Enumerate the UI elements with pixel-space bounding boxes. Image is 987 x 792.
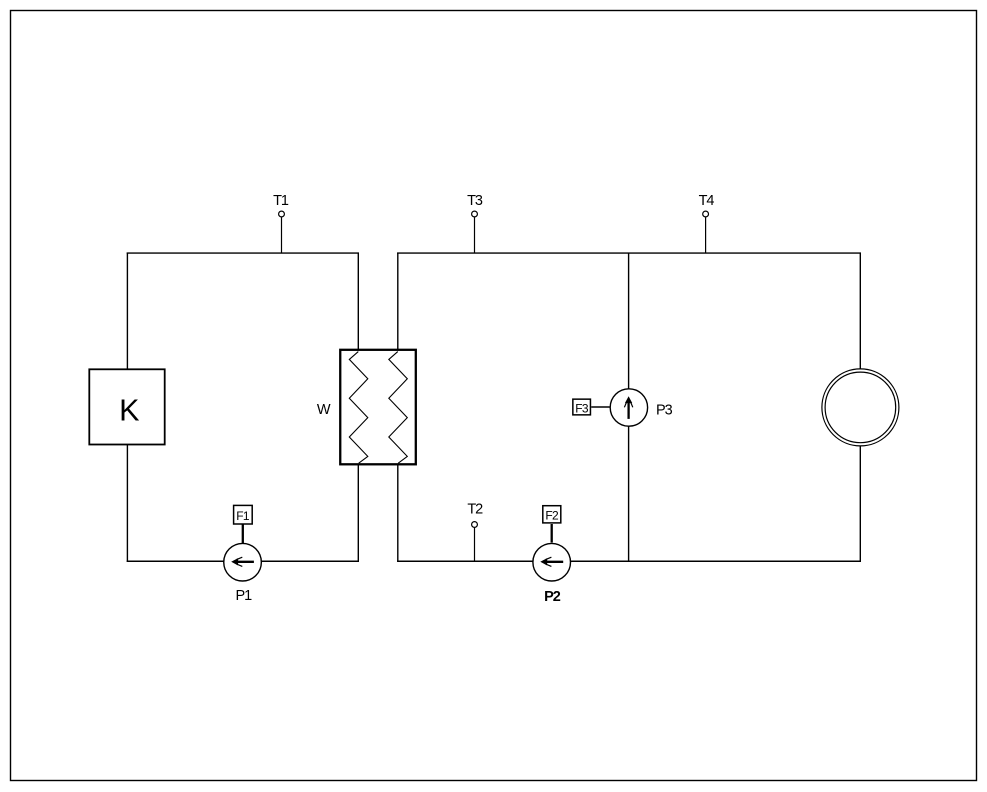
- svg-text:K: K: [119, 394, 139, 428]
- wire: right loop bottom horizontal: [397, 560, 861, 562]
- svg-text:T2: T2: [467, 502, 483, 518]
- temperature sensor T2: [467, 502, 483, 562]
- svg-text:T4: T4: [699, 193, 715, 209]
- temperature sensor T4: [699, 193, 715, 254]
- label W: [317, 402, 331, 418]
- boiler K: [89, 369, 164, 444]
- pump P3: [610, 389, 672, 426]
- wire: left loop top horizontal: [127, 252, 359, 254]
- svg-text:P2: P2: [544, 589, 561, 605]
- wire: right loop right vertical upper: [859, 253, 861, 370]
- heat exchanger W: [340, 350, 416, 465]
- pump P1: [224, 543, 262, 604]
- svg-text:P1: P1: [236, 588, 253, 604]
- svg-text:T1: T1: [273, 193, 289, 209]
- temperature sensor T1: [273, 193, 289, 254]
- wire: W left pipe upper: [357, 253, 359, 351]
- wire: left loop left vertical upper: [126, 253, 128, 370]
- flow sensor F1: [234, 505, 253, 543]
- svg-text:P3: P3: [656, 402, 673, 418]
- wire: W right pipe lower: [397, 464, 399, 562]
- wire: right loop top horizontal: [397, 252, 861, 254]
- pump P2: [533, 543, 571, 605]
- svg-text:T3: T3: [467, 193, 483, 209]
- svg-text:F2: F2: [545, 509, 559, 523]
- wire: W left pipe lower: [357, 464, 359, 562]
- flow sensor F2: [543, 506, 561, 543]
- svg-text:F1: F1: [236, 509, 250, 523]
- wire: right loop right vertical lower: [859, 446, 861, 562]
- wire: left loop left vertical lower: [126, 445, 128, 562]
- wire: P3 branch vertical: [628, 253, 630, 562]
- svg-text:F3: F3: [575, 402, 589, 416]
- wire: left loop bottom horizontal: [127, 560, 359, 562]
- temperature sensor T3: [467, 193, 483, 254]
- heat consumer (double circle): [822, 369, 899, 446]
- flow sensor F3: [573, 399, 610, 415]
- svg-text:W: W: [317, 402, 331, 418]
- wire: W right pipe upper: [397, 253, 399, 351]
